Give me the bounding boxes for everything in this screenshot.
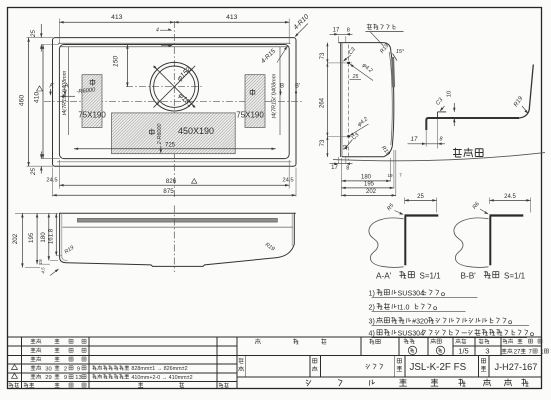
svg-text:17: 17 <box>333 28 340 34</box>
svg-text:202: 202 <box>12 233 19 244</box>
svg-text:410: 410 <box>34 92 41 104</box>
svg-text:#320: #320 <box>412 318 428 326</box>
svg-text:25: 25 <box>30 30 37 38</box>
svg-text:B: B <box>280 84 284 90</box>
svg-text:264: 264 <box>320 97 326 108</box>
svg-text:75X190: 75X190 <box>78 111 106 120</box>
svg-text:725: 725 <box>165 143 176 149</box>
svg-text:17: 17 <box>411 137 418 143</box>
svg-text:4): 4) <box>369 330 375 338</box>
svg-text:25: 25 <box>417 194 424 200</box>
svg-text:4.5: 4.5 <box>41 267 46 274</box>
svg-text:J-H27-167: J-H27-167 <box>495 362 538 372</box>
svg-text:4: 4 <box>156 28 159 34</box>
svg-text:3): 3) <box>369 318 375 326</box>
svg-text:15: 15 <box>38 259 44 265</box>
svg-text:9: 9 <box>77 366 80 372</box>
svg-text:25: 25 <box>352 74 359 80</box>
svg-text:9: 9 <box>64 375 67 381</box>
svg-text:1/5: 1/5 <box>458 346 468 355</box>
svg-text:150: 150 <box>113 56 120 68</box>
svg-text:413: 413 <box>226 14 238 21</box>
svg-text:161.8: 161.8 <box>47 228 54 244</box>
svg-text:7: 7 <box>399 173 402 178</box>
svg-text:27: 27 <box>514 350 521 356</box>
svg-text:2: 2 <box>64 366 67 372</box>
svg-text:t4(7R15t´f)408mm: t4(7R15t´f)408mm <box>272 73 278 118</box>
svg-text:B': B' <box>295 84 300 90</box>
svg-text:17: 17 <box>331 165 338 171</box>
svg-text:SUS304: SUS304 <box>398 290 425 298</box>
svg-text:10: 10 <box>447 91 453 97</box>
svg-text:24.5: 24.5 <box>504 194 516 200</box>
svg-text:A': A' <box>49 84 54 90</box>
svg-text:180: 180 <box>40 232 47 243</box>
svg-text:24.5: 24.5 <box>46 178 57 184</box>
svg-text:13: 13 <box>75 375 81 381</box>
svg-text:875: 875 <box>163 188 174 195</box>
svg-text:24.5: 24.5 <box>282 178 293 184</box>
svg-text:2): 2) <box>369 304 375 312</box>
svg-text:S=1/1: S=1/1 <box>504 272 526 281</box>
svg-text:195: 195 <box>364 182 375 188</box>
svg-text:15°: 15° <box>396 49 405 55</box>
svg-text:3: 3 <box>485 346 489 355</box>
svg-text:JSL-K-2F FS: JSL-K-2F FS <box>410 362 467 373</box>
svg-text:75X190: 75X190 <box>236 111 264 120</box>
svg-text:t1.0: t1.0 <box>398 304 410 312</box>
svg-text:195: 195 <box>28 232 35 243</box>
svg-text:8: 8 <box>346 165 349 171</box>
svg-text:2-R6000: 2-R6000 <box>157 124 163 146</box>
svg-text:73: 73 <box>320 52 326 59</box>
svg-text:25: 25 <box>30 168 37 176</box>
svg-text:413: 413 <box>111 14 123 21</box>
svg-text:A-A': A-A' <box>376 272 392 281</box>
svg-text:10: 10 <box>343 145 349 151</box>
svg-text:460: 460 <box>19 95 26 107</box>
svg-text:826: 826 <box>166 178 177 185</box>
svg-text:202: 202 <box>366 189 377 195</box>
svg-text:450X190: 450X190 <box>178 126 214 136</box>
svg-text:8: 8 <box>440 136 443 142</box>
svg-text:B-B': B-B' <box>461 272 477 281</box>
svg-text:t4(7R15t´f)408mm: t4(7R15t´f)408mm <box>62 70 68 115</box>
svg-text:S=1/1: S=1/1 <box>420 272 442 281</box>
svg-text:29: 29 <box>45 375 51 381</box>
svg-text:30: 30 <box>45 366 51 372</box>
svg-text:410mm+2-0 → 410mm±2: 410mm+2-0 → 410mm±2 <box>131 375 192 381</box>
svg-text:1): 1) <box>369 290 375 298</box>
svg-text:73: 73 <box>320 139 326 146</box>
svg-text:180: 180 <box>361 174 372 180</box>
svg-text:SUS304: SUS304 <box>398 330 425 338</box>
svg-text:828mm±1 → 826mm±2: 828mm±1 → 826mm±2 <box>131 366 187 372</box>
svg-text:8: 8 <box>347 28 350 34</box>
svg-text:19: 19 <box>387 173 393 178</box>
